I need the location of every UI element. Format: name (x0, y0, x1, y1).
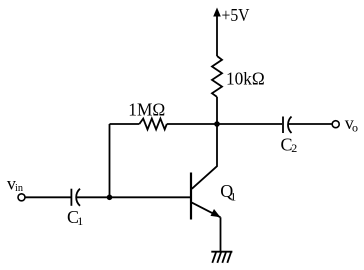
svg-text:in: in (15, 182, 23, 194)
svg-text:1: 1 (77, 214, 83, 228)
wire collector lead (192, 124, 217, 189)
svg-text:+5V: +5V (222, 5, 250, 25)
wire resistor R1 bottom to collector node (216, 97, 218, 124)
wire C1 to base node (77, 196, 190, 198)
capacitor C2 (283, 117, 292, 134)
wire C2 to output terminal (289, 123, 332, 125)
power supply arrow +5V (216, 15, 218, 56)
capacitor C1 (71, 189, 80, 206)
transistor Q1 (191, 124, 221, 220)
wire vin to C1 (25, 196, 71, 198)
node collector junction dot (214, 121, 220, 127)
wire feedback left vertical (109, 124, 111, 198)
wire emitter lead (192, 203, 221, 218)
wire collector node to C2 (217, 123, 282, 125)
wire R2 right to collector node (167, 123, 217, 125)
wire feedback corner to R2 left (110, 123, 140, 125)
resistor R1 10k (212, 56, 222, 97)
svg-text:2: 2 (291, 141, 297, 155)
input terminal vin (18, 194, 25, 201)
output terminal vo (332, 121, 339, 128)
node base junction dot (107, 195, 113, 201)
emitter arrowhead (211, 209, 221, 217)
resistor R2 1M (139, 119, 167, 130)
transistor Q1 base bar (190, 173, 192, 220)
svg-text:10kΩ: 10kΩ (226, 68, 265, 88)
svg-text:1MΩ: 1MΩ (128, 100, 165, 120)
svg-text:o: o (352, 120, 358, 134)
wire emitter to ground (220, 217, 222, 251)
ground (211, 252, 232, 263)
svg-text:1: 1 (230, 190, 236, 204)
